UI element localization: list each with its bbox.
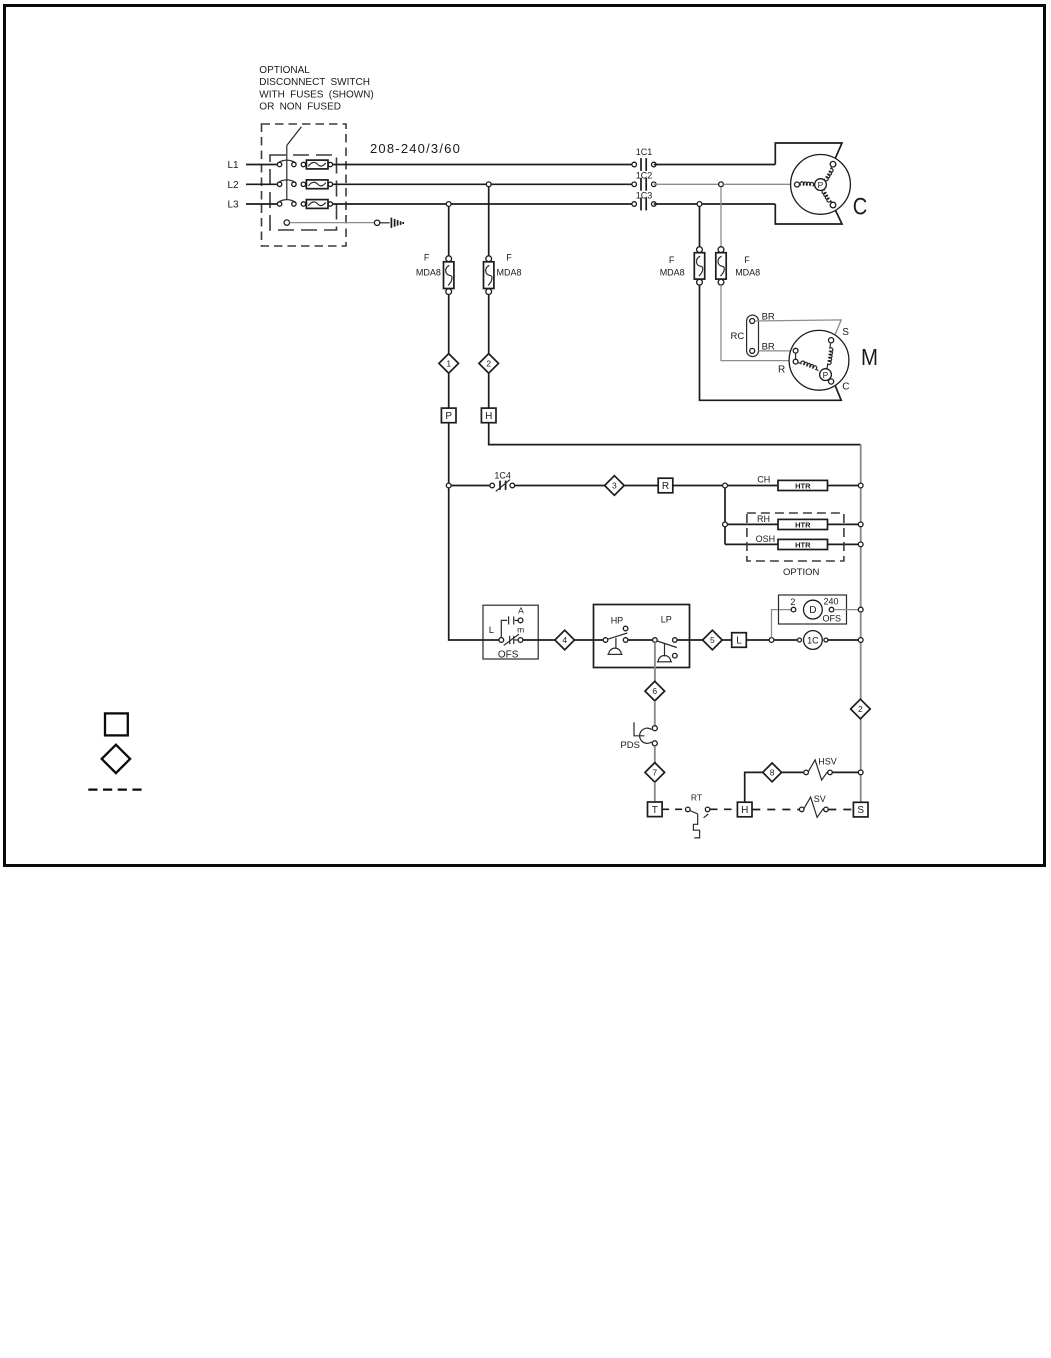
wire ground (290, 222, 375, 224)
switch pole L3 (277, 202, 281, 206)
switch pole L1 (277, 162, 281, 166)
wire diamond 2 to H (488, 373, 490, 408)
wire CH node down to RH (724, 488, 726, 545)
svg-text:BR: BR (762, 311, 775, 322)
node L3-fuse junction (697, 202, 702, 207)
svg-text:HSV: HSV (818, 757, 837, 767)
wire L3 drop to fuse F3 (699, 206, 701, 246)
svg-text:L1: L1 (228, 160, 240, 171)
svg-text:6: 6 (652, 686, 657, 696)
wire H to SV (dashed) (752, 809, 799, 811)
winding T3-P (822, 188, 832, 202)
wire diamond 1 to P (448, 373, 450, 408)
wire to compressor shell lower (702, 203, 775, 205)
wire node to 1C coil (774, 639, 798, 641)
svg-text:M: M (861, 344, 878, 370)
diamond 5 (703, 630, 723, 650)
compressor shell upper (775, 143, 842, 165)
wire OSH row (725, 543, 778, 545)
fuse F MDA8 no.2 (486, 256, 492, 262)
terminal S (829, 338, 834, 343)
wire L2 into switch (246, 183, 278, 185)
wire diamond 7 to T (654, 782, 656, 802)
OFS alarm contact (501, 620, 507, 637)
terminal aux (793, 348, 798, 353)
svg-text:P: P (823, 370, 829, 380)
heat solenoid valve HSV (804, 770, 809, 775)
node bus OSH (858, 542, 863, 547)
wire diamond 6 to PDS (654, 701, 656, 726)
node 1C-D branch (769, 638, 774, 643)
svg-text:HP: HP (611, 615, 624, 625)
svg-text:240: 240 (824, 597, 839, 607)
winding R-P (798, 361, 818, 370)
svg-text:OR NON FUSED: OR NON FUSED (259, 102, 341, 113)
svg-text:MDA8: MDA8 (416, 268, 441, 278)
LP switch (653, 638, 658, 643)
wire 1C3 to node (654, 203, 697, 205)
fuse L1 (disconnect) (301, 162, 305, 166)
svg-text:RT: RT (691, 793, 702, 803)
wire L3 into switch (246, 203, 278, 205)
note OPTIONAL DISCONNECT SWITCH (259, 65, 373, 113)
terminal block H (737, 802, 752, 817)
compressor shell lower (775, 204, 842, 224)
wire RH heater to bus (828, 523, 859, 525)
svg-text:8: 8 (770, 767, 775, 777)
wire 1C coil to bus (828, 639, 858, 641)
OFS main contact (NC) (483, 639, 499, 641)
node bus RH (858, 522, 863, 527)
svg-text:R: R (662, 481, 669, 492)
wire P down (448, 423, 450, 483)
wire OFS to diamond 4 (523, 639, 555, 641)
node L2-fuse junction (719, 182, 724, 187)
terminal T3 (830, 202, 836, 208)
node on L2 (486, 182, 491, 187)
terminal block T (648, 802, 663, 817)
svg-text:2: 2 (858, 704, 863, 714)
node bus D (858, 607, 863, 612)
svg-text:WITH FUSES (SHOWN): WITH FUSES (SHOWN) (259, 89, 373, 100)
switch ground pole (284, 220, 289, 225)
wire fuse F1 to diamond 1 (448, 295, 450, 354)
wire L2 drop to fuse F4 (720, 187, 722, 247)
ground symbol (390, 218, 392, 228)
svg-text:3: 3 (612, 481, 617, 491)
node CH branch (723, 483, 728, 488)
node RH branch (723, 522, 728, 527)
wire diamond 8 to HSV (782, 771, 804, 773)
svg-text:C: C (853, 193, 868, 220)
svg-text:OFS: OFS (498, 649, 519, 660)
wire diamond 4 to HP (575, 639, 604, 641)
svg-text:F: F (669, 255, 675, 265)
wire 1C4 to diamond 3 (515, 485, 605, 487)
wire to CH heater (727, 485, 778, 487)
wire L3 drop to fuse F1 (448, 206, 450, 255)
wire CH heater to bus (828, 485, 859, 487)
svg-text:R: R (778, 365, 785, 376)
terminal block P (441, 408, 456, 423)
compressor motor C circle (791, 155, 851, 215)
svg-text:L: L (489, 625, 494, 636)
link aux-R (795, 353, 797, 359)
svg-text:T: T (652, 805, 658, 816)
svg-text:1C4: 1C4 (494, 470, 511, 480)
diamond 7 (645, 763, 665, 783)
legend square (105, 713, 128, 735)
wire node to contact 1C4 (451, 485, 490, 487)
switch pole L2 (277, 182, 281, 186)
wire L3 to contact 1C3 (332, 203, 632, 205)
solenoid valve SV (799, 807, 804, 812)
svg-text:7: 7 (652, 767, 657, 777)
heater OSH (778, 539, 828, 549)
wire SV to S (dashed) (828, 809, 853, 811)
pump down switch PDS (652, 726, 657, 731)
wire R to CH node (673, 485, 723, 487)
wire 1C2 to node (654, 183, 719, 185)
run capacitor RC (747, 315, 759, 357)
legend diamond (102, 745, 130, 773)
svg-text:C: C (842, 382, 849, 393)
svg-text:1C3: 1C3 (636, 190, 653, 200)
fuse F MDA8 no.1 (446, 256, 452, 262)
wire OSH heater to bus (828, 543, 859, 545)
winding T1-P (824, 167, 834, 181)
wire node up to D (772, 610, 792, 638)
fuse F MDA8 no.4 (718, 247, 724, 253)
wire L2 to contact 1C2 (332, 183, 632, 185)
svg-text:L: L (736, 636, 742, 647)
svg-text:OPTIONAL: OPTIONAL (259, 65, 310, 76)
disconnect switch outer dashed enclosure (262, 124, 347, 246)
wire BR upper (755, 320, 842, 338)
contactor coil 1C (798, 638, 802, 642)
wire fuse F2 to diamond 2 (488, 295, 490, 354)
protector P circle (815, 179, 827, 191)
svg-text:4: 4 (562, 635, 567, 645)
wire T to RT (dashed) (662, 808, 685, 810)
svg-text:1: 1 (446, 358, 451, 368)
pressure switch box (594, 605, 690, 668)
terminal block L (732, 633, 747, 648)
wire RH row (727, 523, 778, 525)
svg-text:F: F (744, 255, 750, 265)
wire diamond 5 to L (722, 639, 732, 641)
diamond 3 (605, 476, 625, 496)
heater CH (778, 480, 828, 490)
node bus 1C (858, 638, 863, 643)
svg-text:HTR: HTR (795, 482, 811, 491)
terminal block R (658, 478, 673, 493)
legend dashed line (88, 788, 143, 790)
defrost heater D (791, 607, 796, 612)
switch linkage bar (286, 145, 288, 200)
svg-text:MDA8: MDA8 (660, 268, 685, 278)
diamond 2 upper (479, 354, 499, 374)
HP switch (603, 638, 608, 643)
svg-text:OSH: OSH (756, 534, 776, 544)
wire LP to diamond 5 (677, 639, 703, 641)
switch operating lever (287, 127, 302, 146)
fuse L2 (disconnect) (301, 182, 305, 186)
svg-text:H: H (741, 805, 748, 816)
wire to compressor R terminal (723, 183, 794, 185)
wire HP to LP (628, 639, 653, 641)
svg-text:L2: L2 (228, 180, 240, 191)
heater RH (778, 519, 828, 529)
svg-text:S: S (842, 327, 849, 338)
right bus vertical (860, 445, 862, 803)
terminal T2 (795, 182, 800, 187)
svg-text:OFS: OFS (823, 613, 842, 623)
wire HSV to bus node (832, 771, 858, 773)
winding S-P (827, 344, 833, 369)
svg-text:2: 2 (790, 597, 795, 607)
fuse F MDA8 no.3 (697, 247, 703, 253)
terminal R (793, 359, 798, 364)
diamond 1 (439, 354, 459, 374)
svg-text:L3: L3 (228, 200, 240, 211)
svg-text:BR: BR (762, 342, 775, 353)
border frame (5, 6, 1045, 866)
terminal block S (853, 802, 868, 817)
svg-text:A: A (518, 605, 524, 615)
wire fuse F3 to motor M common (700, 285, 842, 400)
svg-text:MDA8: MDA8 (496, 268, 521, 278)
protector P motor M (820, 369, 832, 381)
diamond 6 (645, 681, 665, 701)
svg-text:1C2: 1C2 (636, 171, 653, 181)
node on L3 (446, 202, 451, 207)
svg-text:RC: RC (731, 331, 745, 342)
svg-text:LP: LP (661, 615, 672, 625)
node bus CH (858, 483, 863, 488)
svg-text:P: P (445, 411, 452, 422)
svg-text:HTR: HTR (795, 521, 811, 530)
svg-text:RH: RH (757, 514, 770, 524)
wire L1 to contact 1C1 (332, 164, 632, 166)
fuse L3 (disconnect) (301, 202, 305, 206)
diamond 2 lower (851, 699, 871, 719)
svg-text:H: H (485, 411, 492, 422)
svg-text:F: F (424, 253, 430, 263)
wire L1 into switch (246, 164, 278, 166)
svg-text:OPTION: OPTION (783, 567, 820, 578)
svg-text:DISCONNECT SWITCH: DISCONNECT SWITCH (259, 77, 370, 88)
svg-text:m: m (517, 625, 524, 635)
wire L to node (746, 639, 769, 641)
svg-text:D: D (809, 605, 816, 616)
svg-text:2: 2 (486, 358, 491, 368)
wire RT to H (dashed) (710, 808, 737, 810)
wire fuse F4 to motor M run (721, 285, 793, 361)
wire P leg down to OFS row (449, 488, 483, 640)
terminal block H (481, 408, 496, 423)
diamond 4 (555, 630, 575, 650)
svg-text:HTR: HTR (795, 541, 811, 550)
svg-text:SV: SV (814, 794, 826, 804)
room thermostat RT (686, 807, 691, 812)
wire 1C1 to compressor shell (654, 164, 776, 166)
wire PDS to diamond 7 (654, 746, 656, 763)
oil failure switch OFS box (483, 605, 538, 659)
svg-text:5: 5 (710, 635, 715, 645)
terminal C motor M (829, 379, 834, 384)
svg-text:1C1: 1C1 (636, 147, 653, 157)
wire LP to diamond 6 (654, 642, 656, 681)
svg-text:MDA8: MDA8 (735, 268, 760, 278)
node bus HSV (858, 770, 863, 775)
svg-text:CH: CH (757, 474, 770, 484)
OPTION dashed box (747, 513, 844, 561)
wire H up to diamond 8 (745, 772, 763, 802)
fan motor M circle (789, 330, 849, 390)
diamond 8 (763, 763, 782, 782)
defrost box (779, 595, 847, 624)
disconnect switch inner dashed enclosure (270, 155, 337, 230)
terminal T1 (830, 161, 836, 167)
node P-1C4 junction (446, 483, 451, 488)
wire L2 drop to fuse F2 (488, 187, 490, 256)
svg-text:S: S (857, 805, 864, 816)
wire D to bus (834, 609, 859, 611)
svg-text:1C: 1C (807, 636, 819, 646)
wire diamond 3 to R (624, 485, 658, 487)
svg-text:F: F (506, 253, 512, 263)
svg-text:P: P (818, 180, 824, 190)
wire BR lower (759, 350, 794, 352)
svg-text:208-240/3/60: 208-240/3/60 (370, 141, 461, 156)
winding T2-P (800, 182, 815, 186)
wire H leg to right bus (489, 423, 861, 445)
svg-text:PDS: PDS (620, 740, 640, 751)
